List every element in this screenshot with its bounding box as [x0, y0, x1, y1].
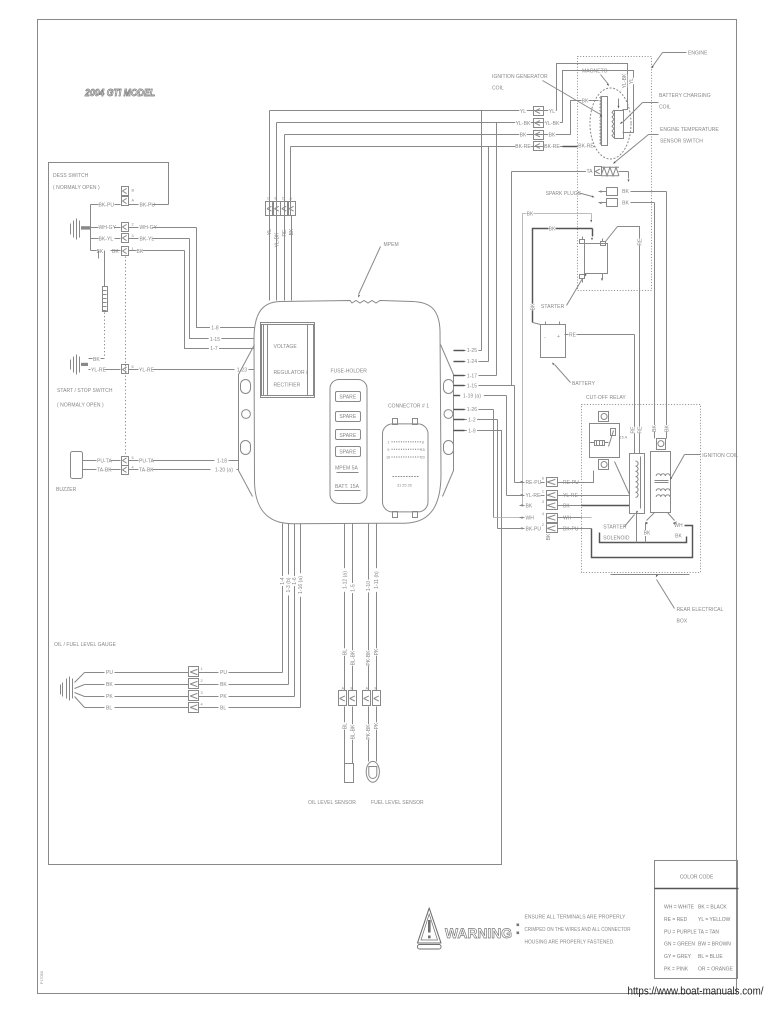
svg-text:PK = PINK: PK = PINK — [664, 967, 689, 973]
svg-text:WH = WHITE: WH = WHITE — [664, 905, 695, 911]
svg-text:TA-BK: TA-BK — [139, 468, 154, 474]
svg-text:( NORMALY OPEN ): ( NORMALY OPEN ) — [57, 403, 104, 409]
svg-text:BK: BK — [546, 533, 552, 540]
svg-text:BK: BK — [112, 249, 119, 255]
svg-text:BK: BK — [97, 249, 104, 255]
svg-text:BK: BK — [137, 249, 144, 255]
svg-text:BK: BK — [527, 211, 534, 217]
svg-text:6: 6 — [132, 365, 134, 369]
svg-text:SPARE: SPARE — [339, 433, 356, 439]
svg-text:15: 15 — [421, 448, 425, 452]
svg-text:BK: BK — [652, 425, 658, 432]
svg-text:YL: YL — [629, 78, 635, 84]
svg-text:BL: BL — [342, 649, 348, 655]
svg-text:BK: BK — [106, 682, 113, 688]
svg-text:ENSURE ALL TERMINALS ARE PROPE: ENSURE ALL TERMINALS ARE PROPERLY — [525, 915, 627, 921]
svg-text:1-6: 1-6 — [292, 577, 298, 585]
svg-text:2: 2 — [132, 223, 134, 227]
svg-text:8: 8 — [422, 441, 424, 445]
svg-text:4: 4 — [542, 512, 544, 516]
svg-text:1-11 (b): 1-11 (b) — [374, 571, 380, 589]
svg-text:OIL / FUEL LEVEL GAUGE: OIL / FUEL LEVEL GAUGE — [54, 642, 117, 648]
svg-text:C: C — [267, 197, 270, 201]
svg-text:BL-BK: BL-BK — [350, 724, 356, 739]
svg-text:BATT. 15A: BATT. 15A — [335, 484, 360, 490]
svg-text:PU = PURPLE: PU = PURPLE — [664, 929, 697, 935]
svg-text:1-26: 1-26 — [467, 407, 477, 413]
svg-text:( NORMALY OPEN ): ( NORMALY OPEN ) — [53, 185, 100, 191]
svg-text:BW = BROWN: BW = BROWN — [698, 942, 731, 948]
svg-text:BK: BK — [622, 189, 629, 195]
svg-text:GY = GREY: GY = GREY — [664, 954, 692, 960]
svg-text:MAGNETO: MAGNETO — [582, 69, 608, 75]
svg-text:IGNITION COIL: IGNITION COIL — [702, 453, 738, 459]
svg-text:BL-BK: BL-BK — [350, 650, 356, 665]
svg-text:-: - — [544, 335, 546, 341]
svg-text:BK: BK — [644, 531, 651, 537]
svg-text:GN = GREEN: GN = GREEN — [664, 942, 695, 948]
svg-text:FUEL LEVEL SENSOR: FUEL LEVEL SENSOR — [371, 800, 424, 806]
svg-text:COIL: COIL — [659, 105, 671, 111]
svg-text:BUZZER: BUZZER — [56, 487, 77, 493]
svg-text:YL = YELLOW: YL = YELLOW — [698, 917, 731, 923]
svg-text:BL: BL — [220, 705, 226, 711]
svg-text:1-12 (a): 1-12 (a) — [342, 571, 348, 589]
svg-text:ENGINE: ENGINE — [688, 51, 708, 57]
svg-text:RE-PU: RE-PU — [526, 480, 542, 486]
svg-text:1-5: 1-5 — [350, 584, 356, 592]
svg-text:2004 GTI MODEL: 2004 GTI MODEL — [84, 87, 155, 99]
svg-text:DESS SWITCH: DESS SWITCH — [53, 173, 89, 179]
svg-text:1-2: 1-2 — [468, 418, 476, 424]
svg-text:1-25: 1-25 — [467, 348, 477, 354]
svg-text:1: 1 — [132, 247, 134, 251]
svg-text:BK-PU: BK-PU — [140, 202, 156, 208]
svg-text:REAR ELECTRICAL: REAR ELECTRICAL — [677, 607, 724, 613]
svg-text:PU-TA: PU-TA — [97, 459, 112, 465]
svg-text:BK: BK — [563, 503, 570, 509]
svg-text:1-24: 1-24 — [467, 359, 477, 365]
svg-text:OIL LEVEL SENSOR: OIL LEVEL SENSOR — [308, 800, 356, 806]
svg-text:YL-BK: YL-BK — [516, 121, 531, 127]
svg-text:6: 6 — [542, 477, 544, 481]
svg-text:STARTER: STARTER — [541, 304, 565, 310]
svg-text:BOX: BOX — [677, 619, 688, 625]
svg-text:16: 16 — [386, 456, 390, 460]
svg-text:BK-PU: BK-PU — [563, 526, 579, 532]
svg-text:BK: BK — [675, 534, 682, 540]
svg-text:TA-BK: TA-BK — [97, 468, 112, 474]
svg-text:1-9: 1-9 — [468, 429, 476, 435]
svg-text:BK: BK — [622, 200, 629, 206]
svg-text:YL-RE: YL-RE — [563, 493, 579, 499]
svg-text:YL-RE: YL-RE — [526, 493, 542, 499]
svg-text:1-20 (a): 1-20 (a) — [215, 467, 233, 473]
svg-text:START / STOP SWITCH: START / STOP SWITCH — [57, 388, 113, 394]
svg-text:BATTERY CHARGING: BATTERY CHARGING — [659, 93, 711, 99]
svg-text:F17053: F17053 — [40, 971, 44, 984]
svg-text:TA = TAN: TA = TAN — [698, 929, 719, 935]
svg-text:YL: YL — [520, 109, 526, 115]
svg-text:5: 5 — [132, 456, 134, 460]
svg-text:BK-YL: BK-YL — [140, 237, 155, 243]
svg-text:1-16 (a): 1-16 (a) — [298, 576, 304, 594]
svg-text:PK: PK — [374, 648, 380, 655]
svg-text:1-8: 1-8 — [211, 325, 219, 331]
svg-text:YL-RE: YL-RE — [91, 368, 107, 374]
svg-text:BK-PU: BK-PU — [526, 526, 542, 532]
svg-text:VOLTAGE: VOLTAGE — [274, 344, 298, 350]
svg-text:BK = BLACK: BK = BLACK — [698, 905, 727, 911]
svg-text:BK: BK — [549, 132, 556, 138]
svg-text:SPARE: SPARE — [339, 449, 356, 455]
svg-text:BL = BLUE: BL = BLUE — [698, 954, 723, 960]
svg-text:WH: WH — [526, 516, 535, 522]
svg-text:https://www.boat-manuals.com/: https://www.boat-manuals.com/ — [628, 986, 765, 998]
svg-text:CONNECTOR # 1: CONNECTOR # 1 — [388, 404, 429, 410]
svg-text:1-19 (a): 1-19 (a) — [463, 393, 481, 399]
svg-text:31 25 26: 31 25 26 — [397, 484, 412, 488]
svg-text:STARTER: STARTER — [603, 525, 627, 531]
svg-text:REGULATOR /: REGULATOR / — [274, 370, 309, 376]
svg-text:1: 1 — [542, 490, 544, 494]
svg-text:COIL: COIL — [492, 86, 504, 92]
svg-text:YL-BK: YL-BK — [545, 121, 560, 127]
svg-text:1-7: 1-7 — [210, 346, 218, 352]
svg-text:BK-RE: BK-RE — [544, 144, 560, 150]
svg-text:BK: BK — [93, 357, 100, 363]
svg-text:TA: TA — [586, 169, 593, 175]
svg-text:PK: PK — [374, 722, 380, 729]
svg-text:PU: PU — [220, 670, 227, 676]
svg-text:RE: RE — [630, 426, 636, 434]
svg-text:BK-RE: BK-RE — [578, 144, 594, 150]
svg-text:YL: YL — [549, 109, 555, 115]
svg-text:PK-BK: PK-BK — [366, 650, 372, 666]
svg-text:FUSE-HOLDER: FUSE-HOLDER — [331, 369, 368, 375]
svg-text:BK-RE: BK-RE — [515, 144, 531, 150]
svg-text:1-15: 1-15 — [467, 383, 477, 389]
svg-text:BK: BK — [664, 425, 670, 432]
svg-text:SPARE: SPARE — [339, 414, 356, 420]
svg-text:BK-PU: BK-PU — [99, 202, 115, 208]
svg-text:WARNING: WARNING — [445, 926, 512, 941]
svg-text:CUT-OFF RELAY: CUT-OFF RELAY — [586, 395, 626, 401]
svg-text:1-15: 1-15 — [210, 337, 220, 343]
svg-text:BK: BK — [531, 303, 537, 310]
svg-text:1-10: 1-10 — [366, 581, 372, 591]
svg-text:1-17: 1-17 — [467, 374, 477, 380]
svg-text:1-4: 1-4 — [280, 577, 286, 585]
svg-text:IGNITION GENERATOR: IGNITION GENERATOR — [492, 74, 548, 80]
svg-text:9: 9 — [387, 448, 389, 452]
svg-text:RE: RE — [637, 426, 643, 434]
svg-text:1: 1 — [201, 667, 203, 671]
svg-text:15 A: 15 A — [620, 436, 628, 440]
svg-text:CRIMPED ON THE WIRES AND ALL C: CRIMPED ON THE WIRES AND ALL CONNECTOR — [525, 927, 631, 933]
svg-text:ENGINE TEMPERATURE: ENGINE TEMPERATURE — [660, 127, 719, 133]
svg-text:RE: RE — [569, 333, 577, 339]
svg-text:BK: BK — [520, 132, 527, 138]
svg-text:PU-TA: PU-TA — [139, 459, 154, 465]
svg-text:4: 4 — [132, 465, 134, 469]
svg-text:BL: BL — [106, 705, 112, 711]
svg-text:4: 4 — [201, 702, 203, 706]
svg-text:2: 2 — [542, 523, 544, 527]
svg-text:YL-RE: YL-RE — [139, 368, 155, 374]
svg-text:SPARK PLUGS: SPARK PLUGS — [546, 191, 582, 197]
svg-text:RE: RE — [637, 238, 643, 246]
svg-text:BATTERY: BATTERY — [572, 381, 596, 387]
svg-text:3: 3 — [132, 234, 134, 238]
svg-text:WH: WH — [563, 516, 572, 522]
svg-text:SOLENOID: SOLENOID — [603, 536, 630, 542]
svg-text:OR = ORANGE: OR = ORANGE — [698, 967, 734, 973]
svg-text:PK: PK — [106, 694, 113, 700]
svg-text:D: D — [282, 197, 285, 201]
svg-text:3: 3 — [201, 691, 203, 695]
svg-text:WH: WH — [674, 523, 683, 529]
svg-text:SPARE: SPARE — [339, 395, 356, 401]
svg-text:WH-GY: WH-GY — [140, 225, 158, 231]
svg-text:HOUSING ARE PROPERLY FASTENED.: HOUSING ARE PROPERLY FASTENED. — [525, 940, 615, 946]
svg-text:1: 1 — [387, 441, 389, 445]
svg-text:COLOR CODE: COLOR CODE — [680, 875, 714, 881]
svg-text:BK: BK — [220, 682, 227, 688]
svg-text:MPEM: MPEM — [384, 242, 399, 248]
svg-text:BL: BL — [342, 723, 348, 729]
svg-text:SENSOR SWITCH: SENSOR SWITCH — [660, 139, 703, 145]
svg-text:BK: BK — [289, 228, 295, 235]
svg-text:BK-YL: BK-YL — [99, 237, 114, 243]
svg-text:1-18: 1-18 — [217, 458, 227, 464]
svg-text:BK: BK — [526, 503, 533, 509]
svg-text:WH-GY: WH-GY — [99, 225, 117, 231]
svg-text:RECTIFIER: RECTIFIER — [274, 383, 301, 389]
svg-text:+: + — [557, 334, 560, 340]
svg-text:PK-BK: PK-BK — [366, 724, 372, 740]
svg-text:3: 3 — [542, 500, 544, 504]
svg-text:20: 20 — [421, 456, 425, 460]
svg-text:2: 2 — [201, 679, 203, 683]
svg-text:MPEM 5A: MPEM 5A — [335, 466, 358, 472]
svg-text:YL-BK: YL-BK — [622, 73, 628, 88]
svg-text:BK: BK — [549, 226, 556, 232]
svg-text:RE = RED: RE = RED — [664, 917, 688, 923]
svg-text:PK: PK — [220, 694, 227, 700]
svg-text:PU: PU — [106, 670, 113, 676]
svg-text:YL-BK: YL-BK — [274, 232, 280, 247]
